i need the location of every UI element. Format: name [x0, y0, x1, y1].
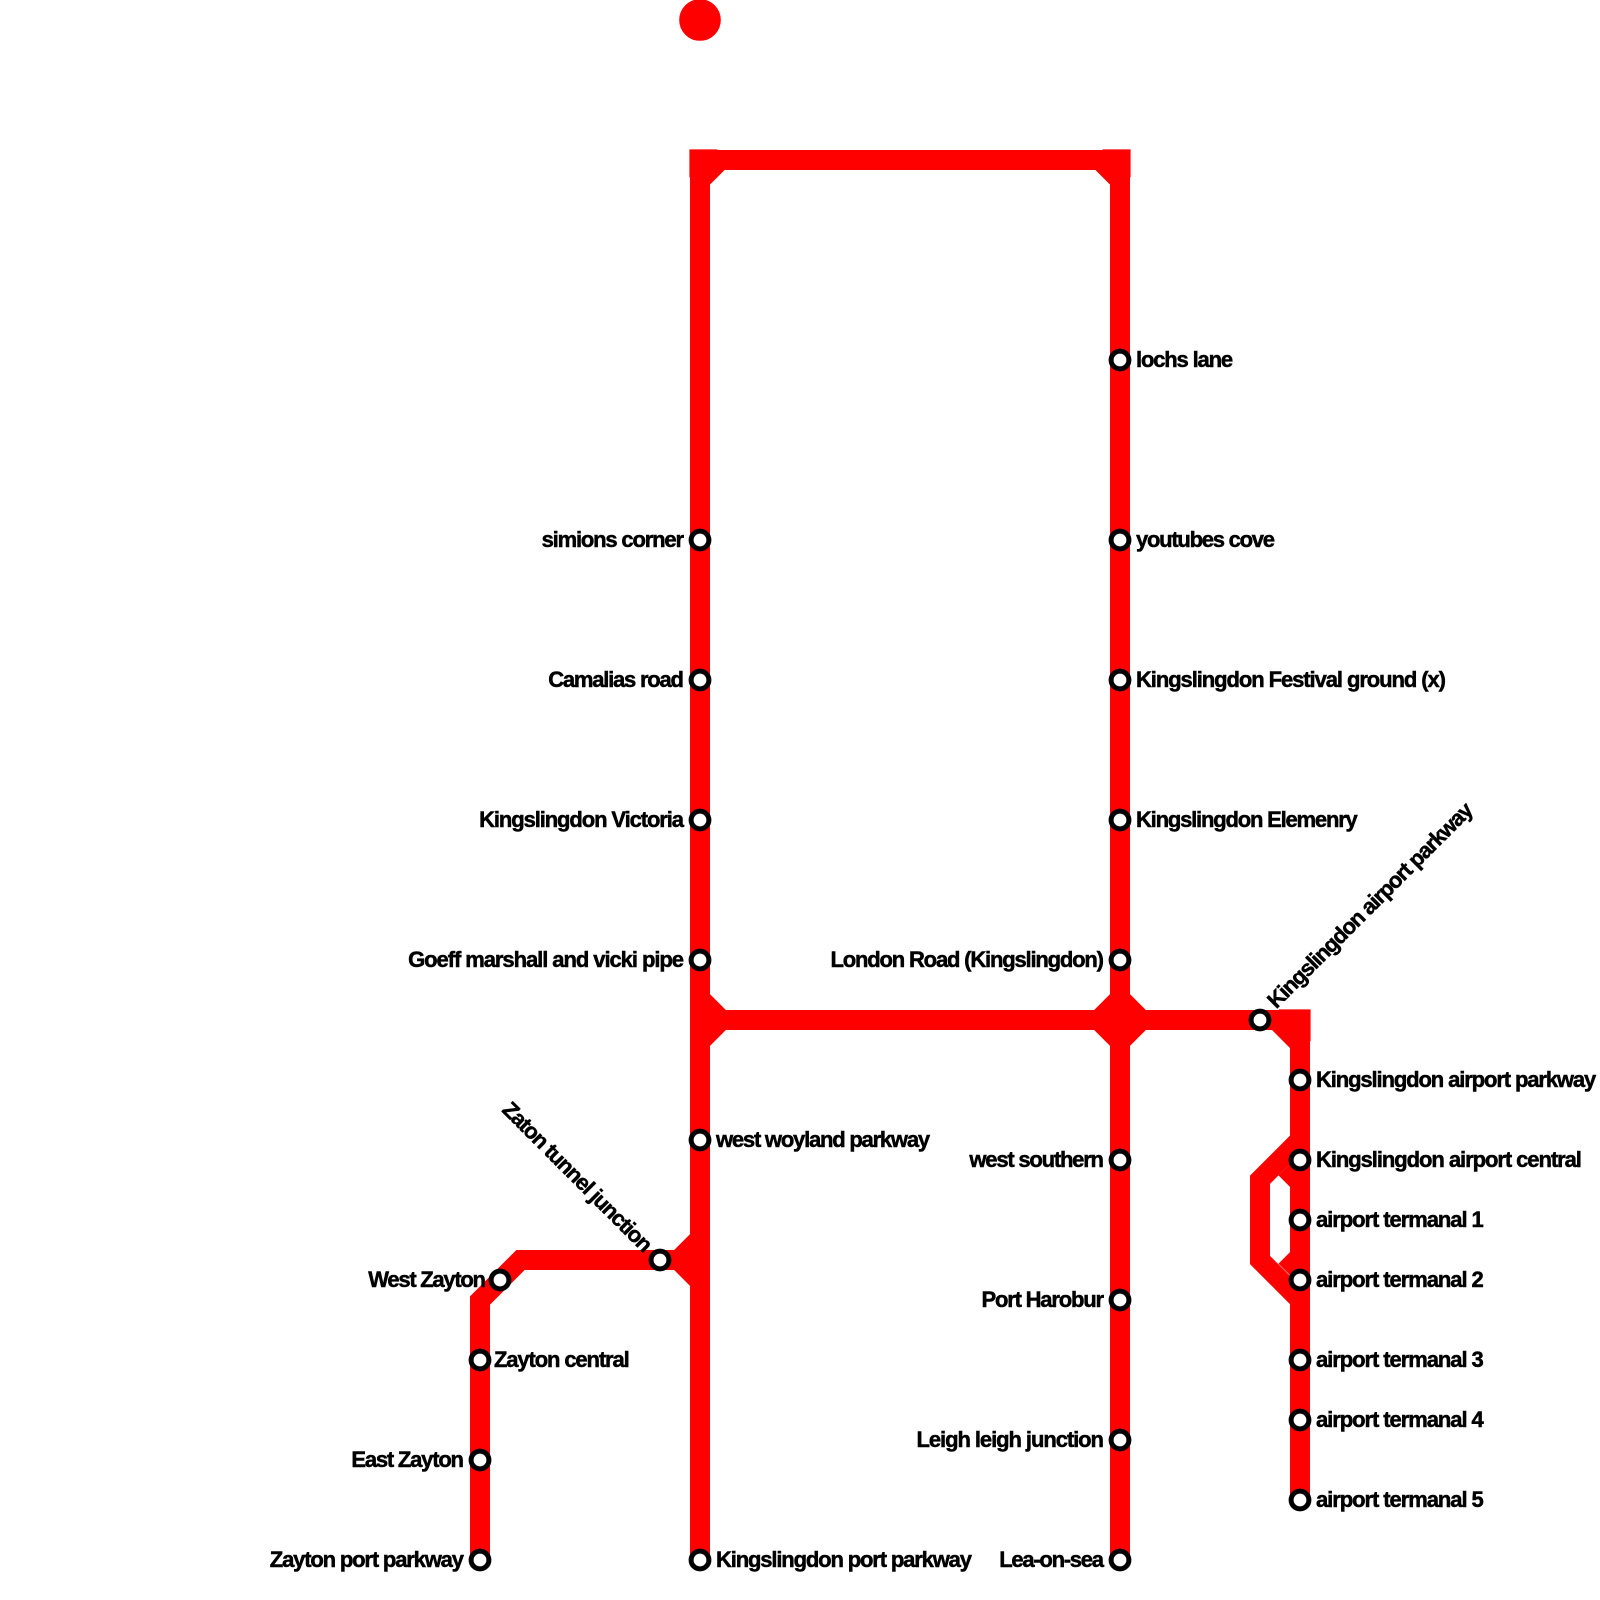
svg-text:simions corner: simions corner [542, 527, 685, 552]
svg-text:Kingslingdon airport central: Kingslingdon airport central [1316, 1147, 1582, 1172]
svg-text:Port Harobur: Port Harobur [982, 1287, 1105, 1312]
svg-text:airport termanal 3: airport termanal 3 [1316, 1347, 1484, 1372]
svg-text:West Zayton: West Zayton [368, 1267, 486, 1292]
svg-text:Kingslingdon Victoria: Kingslingdon Victoria [479, 807, 685, 832]
svg-text:Goeff marshall and vicki pipe: Goeff marshall and vicki pipe [408, 947, 684, 972]
svg-text:Camalias road: Camalias road [548, 667, 684, 692]
svg-text:Kingslingdon airport parkway: Kingslingdon airport parkway [1316, 1067, 1597, 1092]
svg-text:airport termanal 2: airport termanal 2 [1316, 1267, 1484, 1292]
svg-text:Kingslingdon Elemenry: Kingslingdon Elemenry [1136, 807, 1359, 832]
svg-text:airport termanal 1: airport termanal 1 [1316, 1207, 1484, 1232]
svg-text:Zayton central: Zayton central [494, 1347, 630, 1372]
svg-text:East Zayton: East Zayton [351, 1447, 464, 1472]
svg-text:airport termanal 5: airport termanal 5 [1316, 1487, 1484, 1512]
svg-text:west woyland parkway: west woyland parkway [715, 1127, 931, 1152]
svg-text:lochs lane: lochs lane [1136, 347, 1233, 372]
svg-text:Kingslingdon port parkway: Kingslingdon port parkway [716, 1547, 973, 1572]
svg-text:Lea-on-sea: Lea-on-sea [999, 1547, 1105, 1572]
svg-text:Leigh leigh junction: Leigh leigh junction [917, 1427, 1105, 1452]
svg-text:west southern: west southern [968, 1147, 1104, 1172]
svg-text:London Road (Kingslingdon): London Road (Kingslingdon) [831, 947, 1105, 972]
svg-text:Zayton port parkway: Zayton port parkway [270, 1547, 465, 1572]
svg-text:youtubes cove: youtubes cove [1136, 527, 1275, 552]
svg-text:Kingslingdon Festival ground (: Kingslingdon Festival ground (x) [1136, 667, 1446, 692]
svg-text:airport termanal 4: airport termanal 4 [1316, 1407, 1485, 1432]
